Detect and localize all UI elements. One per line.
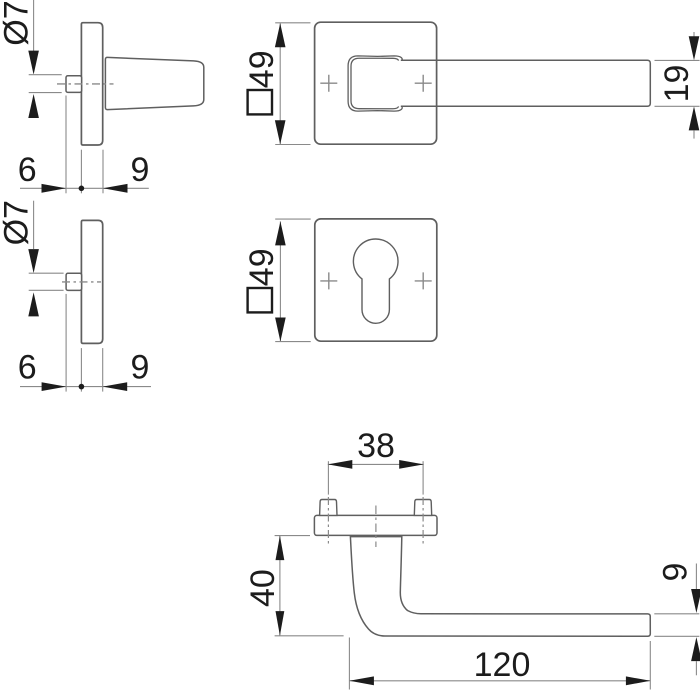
svg-text:38: 38 — [357, 427, 395, 465]
rose plate E — [314, 515, 437, 535]
dim 9 E: dimension line lower — [695, 661, 697, 675]
spindle pin C — [66, 273, 82, 290]
screw hole mark right B — [415, 75, 432, 92]
dim Ø7 C: dimension line — [33, 201, 35, 249]
dim 19 B: arrow lower — [689, 106, 700, 130]
dim Ø7 C: extension line top — [29, 272, 64, 274]
euro cylinder hole D — [353, 239, 398, 323]
dim 49 B: extension line bottom — [275, 144, 310, 146]
dim 49 D: square symbol — [248, 288, 272, 312]
screw hole mark left B — [320, 75, 337, 92]
dim 38: extension line left — [327, 461, 329, 494]
dim 38: arrow left — [328, 460, 353, 469]
dim 6/9 C: extension line at rose right — [102, 348, 104, 392]
centerline C — [62, 281, 101, 283]
dim 49 B: arrow down — [275, 120, 286, 144]
dim Ø7 A: arrow lower — [28, 94, 39, 118]
screw hole mark left D — [320, 272, 337, 289]
dim 120: arrow right — [626, 676, 651, 685]
dim 6/9 C: junction dot — [79, 384, 85, 390]
dim Ø7 C: extension line bottom — [29, 289, 64, 291]
handle grip E (top view, L-shape) — [350, 537, 650, 637]
boss centerline left E — [327, 497, 329, 544]
dim 6/9 A: extension line at rose left — [80, 150, 82, 194]
dim 49 D: arrow down — [275, 318, 286, 342]
dim 6/9 C: extension line at pin left — [65, 294, 67, 392]
dim 6/9 A: dimension line — [20, 187, 149, 189]
dim Ø7 A: arrow upper — [28, 51, 39, 75]
rose C (side view plate) — [81, 220, 102, 343]
centerline A — [57, 83, 114, 85]
dim 9 E: arrow upper — [691, 589, 700, 613]
dim 19 B: dimension line upper — [693, 32, 695, 37]
dim 40: arrow up — [276, 536, 285, 561]
dim Ø7 A: extension line bottom — [29, 92, 62, 94]
screw hole mark right D — [415, 272, 432, 289]
svg-text:Ø7: Ø7 — [0, 200, 36, 245]
rose A (side view plate) — [81, 23, 102, 145]
dim 49 B: dimension line — [279, 23, 281, 144]
neck inner contour B — [351, 58, 399, 109]
dim 40: extension line bottom — [275, 635, 344, 637]
dim Ø7 A: dimension line — [33, 0, 35, 51]
lever bar B — [401, 60, 651, 106]
dim Ø7 C: arrow upper — [28, 249, 39, 273]
dim 6/9 A: extension line at rose right — [102, 150, 104, 194]
rose D (square) — [315, 219, 437, 341]
dim Ø7 C: arrow lower — [28, 292, 39, 316]
dim 49 D: extension line bottom — [275, 341, 311, 343]
dim 38: dimension line — [328, 463, 424, 465]
spindle pin A — [66, 76, 82, 93]
svg-text:9: 9 — [657, 563, 695, 582]
dim 40: arrow down — [276, 611, 285, 636]
dim 49 D: dimension line — [279, 221, 281, 341]
boss centerline right E — [422, 497, 424, 544]
dim 9 E: dimension line upper — [695, 564, 697, 590]
dim 49 D: extension line top — [275, 218, 311, 220]
svg-text:19: 19 — [658, 65, 696, 103]
handle neck A (tapered, side view) — [105, 57, 203, 109]
dim 120: dimension line — [349, 680, 650, 682]
dim 6/9 A: arrow right-pointing — [42, 184, 67, 193]
dim 49 B: arrow up — [275, 23, 286, 47]
dim 9 E: extension line bottom — [654, 635, 699, 637]
svg-text:6: 6 — [18, 151, 37, 189]
dim 49 B: square symbol — [248, 90, 272, 114]
svg-text:120: 120 — [474, 646, 531, 684]
dim 19 B: extension line top — [655, 59, 700, 61]
svg-text:9: 9 — [131, 349, 150, 387]
dim 6/9 C: arrow right-pointing — [42, 382, 67, 391]
dim 120: extension line left — [348, 638, 350, 690]
rose B (square) — [315, 22, 437, 144]
dim 49 B: extension line top — [275, 22, 310, 24]
dim 6/9 A: junction dot — [79, 186, 85, 192]
svg-text:Ø7: Ø7 — [0, 0, 36, 45]
svg-text:40: 40 — [244, 569, 282, 607]
svg-text:6: 6 — [18, 349, 37, 387]
center dash line E — [375, 506, 377, 548]
screw boss right E — [414, 500, 431, 516]
dim 6/9 C: dimension line — [20, 386, 151, 388]
dim 40: dimension line — [279, 536, 281, 636]
dim 38: extension line right — [422, 461, 424, 494]
dim 9 E: extension line top — [654, 613, 699, 615]
dim 6/9 A: extension line at pin left — [65, 96, 67, 194]
dim 6/9 A: arrow left-pointing — [103, 184, 128, 193]
svg-text:9: 9 — [131, 151, 150, 189]
dim 6/9 C: extension line at rose left — [80, 348, 82, 392]
screw boss left E — [320, 500, 337, 516]
dim 19 B: arrow upper — [689, 36, 700, 60]
dim 120: extension line right — [649, 641, 651, 690]
dim 120: arrow left — [349, 676, 374, 685]
neck outer contour B — [348, 56, 402, 111]
dim 19 B: extension line bottom — [655, 105, 700, 107]
dim 19 B: dimension line lower — [693, 130, 695, 138]
dim 49 D: arrow up — [275, 221, 286, 245]
svg-text:49: 49 — [243, 248, 281, 286]
dim 38: arrow right — [399, 460, 424, 469]
dim 6/9 C: arrow left-pointing — [103, 382, 128, 391]
dim Ø7 A: extension line top — [29, 74, 62, 76]
dim 40: extension line top — [275, 535, 310, 537]
svg-text:49: 49 — [243, 50, 281, 88]
dim 9 E: arrow lower — [691, 637, 700, 661]
